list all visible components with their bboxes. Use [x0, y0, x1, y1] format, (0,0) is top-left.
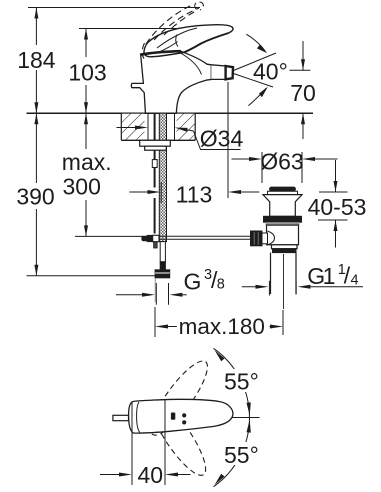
- dim 390 line: [35, 113, 37, 183]
- hose lower smooth part: [160, 242, 165, 262]
- hole edge right: [174, 113, 176, 140]
- dim 103 line: [85, 29, 87, 58]
- svg-text:Ø63: Ø63: [260, 149, 303, 175]
- svg-text:max.180: max.180: [179, 314, 265, 339]
- swing centerline: [232, 417, 260, 419]
- svg-text:8: 8: [217, 277, 225, 293]
- svg-text:103: 103: [68, 60, 106, 86]
- dashed handle rotated up 55: [143, 354, 216, 442]
- dim 40 bottom: [100, 474, 121, 476]
- nut stem: [262, 233, 268, 244]
- rod clamp white center: [153, 235, 159, 241]
- svg-text:113: 113: [176, 181, 213, 207]
- rod clamp dark block: [147, 235, 153, 241]
- dim G3/8 text: [184, 267, 225, 295]
- deck hatched left part: [121, 114, 144, 140]
- horizontal pop-up rod: [159, 235, 251, 237]
- dim max300 line: [85, 113, 87, 149]
- deck hatched right part: [177, 114, 196, 140]
- 40 ext line left: [131, 402, 133, 485]
- faucet body: [131, 56, 145, 113]
- knurled nut: [251, 231, 263, 246]
- svg-text:55°: 55°: [224, 442, 259, 468]
- pop-up rod upper: [154, 113, 156, 159]
- dashed handle rotated down 55: [143, 393, 214, 482]
- hose dark sleeve: [160, 262, 165, 270]
- svg-text:55°: 55°: [224, 369, 259, 395]
- body bottom: [272, 245, 298, 249]
- handle mark dots: [182, 413, 186, 417]
- svg-text:300: 300: [63, 173, 101, 199]
- drain flange: [263, 195, 302, 217]
- 113 ext line (spout center): [227, 82, 229, 198]
- dim 113: [129, 191, 149, 193]
- upper 55 arc: [214, 348, 250, 417]
- gray band: [266, 222, 300, 225]
- handle beak bold underside: [184, 33, 229, 53]
- svg-text:max.: max.: [62, 149, 112, 175]
- pipe centerline: [283, 254, 285, 309]
- dark ring: [273, 249, 297, 253]
- aerator tip: [226, 66, 233, 79]
- faucet dashed raised handle: [142, 2, 203, 59]
- tailpipe: [270, 253, 272, 294]
- deck top line: [27, 112, 314, 114]
- dim 40-53: [335, 160, 337, 192]
- drain body: [267, 225, 299, 245]
- svg-text:40-53: 40-53: [308, 194, 367, 220]
- mounting flange under deck: [140, 140, 171, 146]
- handle mark bar: [171, 413, 175, 420]
- rod clamp screw: [142, 236, 147, 241]
- handle / body joint (cartridge line): [140, 51, 181, 55]
- extension line max300 bottom: [75, 235, 143, 237]
- svg-text:G: G: [184, 269, 202, 295]
- svg-text:4: 4: [351, 273, 359, 289]
- braided supply hose column: [159, 113, 166, 241]
- dim G1 1/4: [242, 286, 258, 288]
- G3/8 nut: [155, 270, 170, 278]
- svg-text:70: 70: [290, 80, 316, 106]
- pivot ext line: [164, 399, 166, 485]
- handle inner detail lines: [157, 28, 197, 48]
- clamp stem below: [154, 242, 158, 248]
- solid handle top view: [129, 399, 233, 433]
- drain plug cap: [270, 187, 296, 191]
- faucet handle (solid): [144, 25, 233, 57]
- faint centerline below nut: [154, 279, 156, 303]
- rod adjuster: [152, 160, 157, 168]
- G1 1/4 text: [307, 262, 358, 289]
- spout outlet block: [211, 65, 225, 80]
- 40deg upper arc w arrow: [246, 34, 265, 51]
- svg-text:184: 184: [17, 47, 56, 73]
- body inner curve: [181, 53, 202, 75]
- dim O34 arrows: [117, 127, 138, 129]
- dim 184 line: [35, 8, 37, 46]
- dim max.180: [154, 307, 156, 337]
- spray angle lines 40deg: [234, 53, 277, 71]
- handle pin stub: [113, 415, 129, 420]
- deck right edge: [194, 113, 196, 140]
- dim G3/8 arrows: [116, 294, 143, 296]
- lower 55 text: [222, 442, 264, 465]
- svg-text:G1: G1: [307, 263, 334, 289]
- pop-up rod lower: [154, 198, 156, 234]
- O63 dim arrows: [232, 158, 252, 160]
- hole edge left: [147, 113, 149, 140]
- svg-text:40: 40: [138, 462, 164, 488]
- dim 70: [289, 69, 310, 71]
- body side arc: [268, 231, 275, 245]
- O63 ext lines: [261, 152, 263, 183]
- body right edge + spout: [176, 51, 211, 113]
- extension line handle top (103 ref): [79, 28, 196, 30]
- deck left edge: [120, 113, 122, 140]
- deck bottom line: [121, 139, 195, 141]
- 40deg lower arc w arrow: [248, 88, 266, 105]
- svg-text:40°: 40°: [253, 59, 288, 85]
- mounting flange step: [145, 146, 167, 150]
- pop-up rod middle: [154, 168, 156, 188]
- svg-text:390: 390: [16, 184, 54, 210]
- handle left cap inner curve: [137, 402, 140, 433]
- lower 55 arc: [214, 418, 250, 487]
- extension line top (184 ref): [28, 7, 200, 9]
- upper 55 text: [222, 369, 264, 392]
- extension line 390 bottom: [27, 275, 158, 277]
- gasket ring: [264, 216, 302, 222]
- O34 leader: [194, 131, 241, 150]
- svg-text:Ø34: Ø34: [200, 126, 244, 152]
